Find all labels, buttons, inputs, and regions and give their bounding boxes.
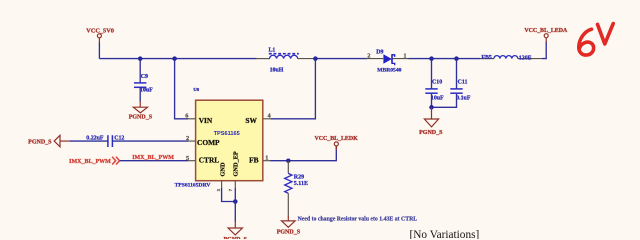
svg-text:L1: L1 xyxy=(269,48,276,54)
svg-text:10uH: 10uH xyxy=(270,68,284,74)
lead L1 left xyxy=(256,58,270,60)
pin 1 lead FB xyxy=(263,160,271,162)
svg-text:FB5: FB5 xyxy=(481,55,492,61)
svg-text:C9: C9 xyxy=(141,74,148,80)
wire SW riser xyxy=(271,59,316,119)
svg-text:1: 1 xyxy=(265,155,268,162)
svg-text:IMX_BL_PWM: IMX_BL_PWM xyxy=(132,155,174,161)
node junction VIN drop xyxy=(172,56,177,61)
svg-text:PGND_S: PGND_S xyxy=(419,130,443,136)
wire rail after junction xyxy=(314,58,368,60)
capacitor C9 xyxy=(134,59,153,102)
svg-text:D9: D9 xyxy=(376,49,383,55)
wire top rail left segment xyxy=(99,58,256,60)
ferrite bead FB5 leads xyxy=(480,58,495,60)
node junction C9 xyxy=(138,56,143,61)
svg-text:5: 5 xyxy=(186,155,189,162)
resistor R29 xyxy=(285,161,308,217)
pin 5 lead CTRL xyxy=(188,160,196,162)
svg-text:Need to change Resistor valu e: Need to change Resistor valu eto 1.43E a… xyxy=(298,216,418,222)
wire C10/C11 bottoms xyxy=(432,94,457,108)
node junction C11 xyxy=(454,56,459,61)
svg-text:COMP: COMP xyxy=(197,138,220,147)
pin 2 lead COMP xyxy=(188,140,196,142)
wire FB net xyxy=(271,146,337,161)
wire VIN drop xyxy=(175,59,189,119)
svg-text:TPS61165DRV: TPS61165DRV xyxy=(175,182,211,188)
wire C12 to COMP xyxy=(113,140,189,142)
pin 3 lead GND xyxy=(221,180,223,188)
svg-text:C11: C11 xyxy=(458,79,468,85)
ground PGND_S under R29 xyxy=(277,216,301,236)
svg-text:PGND_S: PGND_S xyxy=(129,115,153,121)
svg-text:C10: C10 xyxy=(432,79,442,85)
wire VCC_5V0 to rail xyxy=(98,43,100,59)
IC U8 TPS61165 body xyxy=(196,100,263,181)
capacitor C10 xyxy=(425,59,444,102)
wire rail diode to FB5 xyxy=(409,58,481,60)
capacitor C11 xyxy=(450,59,471,102)
pin 7 lead GND_EP xyxy=(234,180,236,188)
pin 4 lead SW xyxy=(263,118,271,120)
annotation 6V handwritten xyxy=(579,24,613,55)
svg-text:PGND_S: PGND_S xyxy=(277,230,301,236)
pin 6 lead VIN xyxy=(188,118,196,120)
wire PGND_S to C12 xyxy=(70,140,108,142)
svg-text:U8: U8 xyxy=(193,87,199,92)
power flag VCC_BL_LEDK xyxy=(314,136,358,150)
svg-text:10uF: 10uF xyxy=(431,95,444,101)
svg-text:[No Variations]: [No Variations] xyxy=(410,229,480,239)
svg-text:2: 2 xyxy=(186,135,189,142)
svg-text:GND: GND xyxy=(219,162,226,176)
svg-text:MBR0540: MBR0540 xyxy=(377,68,401,74)
node junction GND xyxy=(233,199,238,204)
power flag VCC_5V0 xyxy=(86,27,114,43)
node junction cap bottoms xyxy=(429,105,434,110)
svg-text:0.1uF: 0.1uF xyxy=(456,95,471,101)
svg-text:1: 1 xyxy=(403,52,406,59)
svg-text:IMX_BL_PWM: IMX_BL_PWM xyxy=(69,159,111,165)
svg-text:7: 7 xyxy=(228,188,233,191)
wire rail L1 to diode xyxy=(297,58,313,60)
node junction C10 xyxy=(429,56,434,61)
inductor L1 xyxy=(269,48,299,74)
ground PGND_S under IC xyxy=(224,222,248,240)
svg-text:2: 2 xyxy=(367,52,370,59)
diode D9 leads xyxy=(366,58,383,60)
capacitor C12 xyxy=(86,135,124,147)
svg-text:120E: 120E xyxy=(519,55,532,61)
svg-text:R29: R29 xyxy=(294,175,304,181)
port PGND_S left xyxy=(28,135,70,147)
svg-text:VCC_BL_LEDK: VCC_BL_LEDK xyxy=(314,136,358,142)
wire GND stem xyxy=(234,188,236,222)
svg-text:3: 3 xyxy=(216,188,221,191)
wire GND pins join xyxy=(222,188,236,202)
power flag VCC_BL_LEDA xyxy=(524,28,568,43)
svg-text:PGND_S: PGND_S xyxy=(224,237,248,239)
port IMX_BL_PWM xyxy=(69,157,119,166)
svg-text:SW: SW xyxy=(245,116,257,125)
ground PGND_S under C10 xyxy=(419,107,443,136)
svg-text:VIN: VIN xyxy=(199,116,213,125)
wire FB5 to LEDA riser xyxy=(542,42,546,59)
ferrite bead FB5 xyxy=(481,55,531,62)
svg-text:0.22uF: 0.22uF xyxy=(86,135,104,141)
diode D9 xyxy=(376,49,401,73)
node junction R29 xyxy=(286,158,291,163)
svg-text:10uF: 10uF xyxy=(140,87,153,93)
svg-text:GND_EP: GND_EP xyxy=(233,151,240,176)
wire PWM to CTRL xyxy=(120,160,189,162)
ground PGND_S under C9 xyxy=(129,101,153,121)
svg-text:PGND_S: PGND_S xyxy=(28,139,52,145)
svg-text:TPS61165: TPS61165 xyxy=(214,131,240,137)
node junction SW riser xyxy=(313,56,318,61)
svg-text:5.11E: 5.11E xyxy=(294,181,308,187)
svg-text:6: 6 xyxy=(185,112,188,119)
svg-text:VCC_BL_LEDA: VCC_BL_LEDA xyxy=(524,28,568,34)
svg-text:CTRL: CTRL xyxy=(199,156,220,165)
svg-text:FB: FB xyxy=(249,156,259,165)
